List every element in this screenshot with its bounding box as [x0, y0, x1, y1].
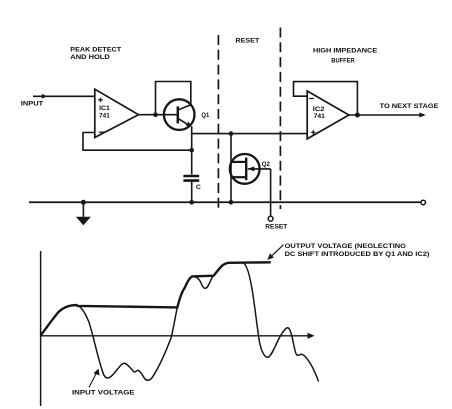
- svg-text:RESET: RESET: [265, 224, 287, 231]
- label RESET (bottom): [265, 224, 287, 231]
- label HIGH IMPEDANCE BUFFER: [313, 48, 378, 65]
- ground: [82, 202, 84, 217]
- node cap top feedback junction: [189, 148, 194, 153]
- node IC2 output junction: [355, 113, 360, 118]
- IC2 noninverting pin mark +: [311, 130, 315, 134]
- curve output voltage: [41, 262, 271, 335]
- svg-text:INPUT VOLTAGE: INPUT VOLTAGE: [72, 389, 135, 396]
- wire capacitor to rail: [191, 182, 193, 202]
- svg-text:OUTPUT VOLTAGE (NEGLECTING: OUTPUT VOLTAGE (NEGLECTING: [285, 243, 406, 250]
- label RESET (top): [236, 37, 260, 44]
- wire Q2 gate to reset terminal: [270, 169, 272, 216]
- label PEAK DETECT AND HOLD: [70, 47, 121, 62]
- IC2 inverting pin mark -: [309, 98, 314, 100]
- label TO NEXT STAGE: [380, 103, 440, 110]
- capacitor C: [183, 175, 199, 178]
- transistor Q1: [164, 99, 195, 130]
- node Q2 source junction: [229, 200, 234, 205]
- dashed separator right: [279, 28, 281, 210]
- svg-text:PEAK DETECT: PEAK DETECT: [70, 47, 121, 54]
- label OUTPUT VOLTAGE: [285, 243, 430, 258]
- label INPUT VOLTAGE: [72, 389, 135, 396]
- op-amp IC2: [307, 91, 349, 139]
- node cap bottom: [189, 200, 194, 205]
- wire feedback to IC1 inverting input: [83, 133, 192, 151]
- input arrowhead: [42, 94, 47, 99]
- svg-text:TO NEXT STAGE: TO NEXT STAGE: [380, 103, 440, 110]
- wire Q1 emitter down: [191, 126, 193, 174]
- svg-text:IC1: IC1: [99, 105, 110, 112]
- output arrowhead: [419, 113, 425, 118]
- wire Q2 drain-source: [230, 134, 232, 203]
- label INPUT: [21, 100, 43, 107]
- label pointer input voltage: [89, 371, 98, 388]
- label pointer output voltage: [269, 245, 283, 259]
- svg-text:741: 741: [99, 113, 110, 120]
- svg-text:DC SHIFT INTRODUCED BY Q1 AND: DC SHIFT INTRODUCED BY Q1 AND IC2): [285, 251, 430, 258]
- svg-text:Q2: Q2: [262, 161, 270, 168]
- svg-text:AND HOLD: AND HOLD: [70, 54, 110, 61]
- terminal rail right open circle: [421, 200, 426, 205]
- node Q2 drain junction: [229, 131, 234, 136]
- node base junction: [153, 112, 158, 117]
- bottom rail: [29, 201, 421, 203]
- svg-text:HIGH IMPEDANCE: HIGH IMPEDANCE: [313, 48, 378, 55]
- label IC2 741: [313, 106, 325, 120]
- wire input: [33, 95, 95, 97]
- waveform x-axis: [41, 335, 309, 337]
- wire emitter to IC2: [192, 133, 308, 135]
- svg-text:C: C: [196, 184, 201, 191]
- wire IC1 output to Q1 base: [139, 114, 177, 116]
- label C: [196, 184, 201, 191]
- curve input voltage: [41, 262, 319, 381]
- svg-text:INPUT: INPUT: [21, 100, 43, 107]
- svg-text:IC2: IC2: [313, 106, 325, 113]
- waveform y-axis: [40, 251, 42, 406]
- svg-text:BUFFER: BUFFER: [331, 58, 355, 65]
- IC1 inverting pin mark -: [99, 131, 105, 133]
- svg-text:Q1: Q1: [201, 112, 209, 119]
- dashed separator left: [217, 35, 219, 209]
- label Q2: [262, 161, 270, 168]
- IC1 noninverting pin mark +: [98, 98, 102, 102]
- node ground junction: [81, 200, 86, 205]
- label IC1 741: [99, 105, 110, 119]
- wire base-collector loop: [156, 82, 191, 115]
- svg-text:741: 741: [314, 113, 326, 120]
- terminal RESET open circle: [268, 216, 273, 221]
- transistor Q2: [230, 154, 260, 184]
- wire IC2 feedback loop: [294, 82, 358, 115]
- wire IC2 output: [349, 114, 424, 116]
- label Q1: [201, 112, 209, 119]
- svg-text:RESET: RESET: [236, 37, 260, 44]
- op-amp IC1: [95, 89, 139, 137]
- x-axis arrowhead: [308, 333, 315, 339]
